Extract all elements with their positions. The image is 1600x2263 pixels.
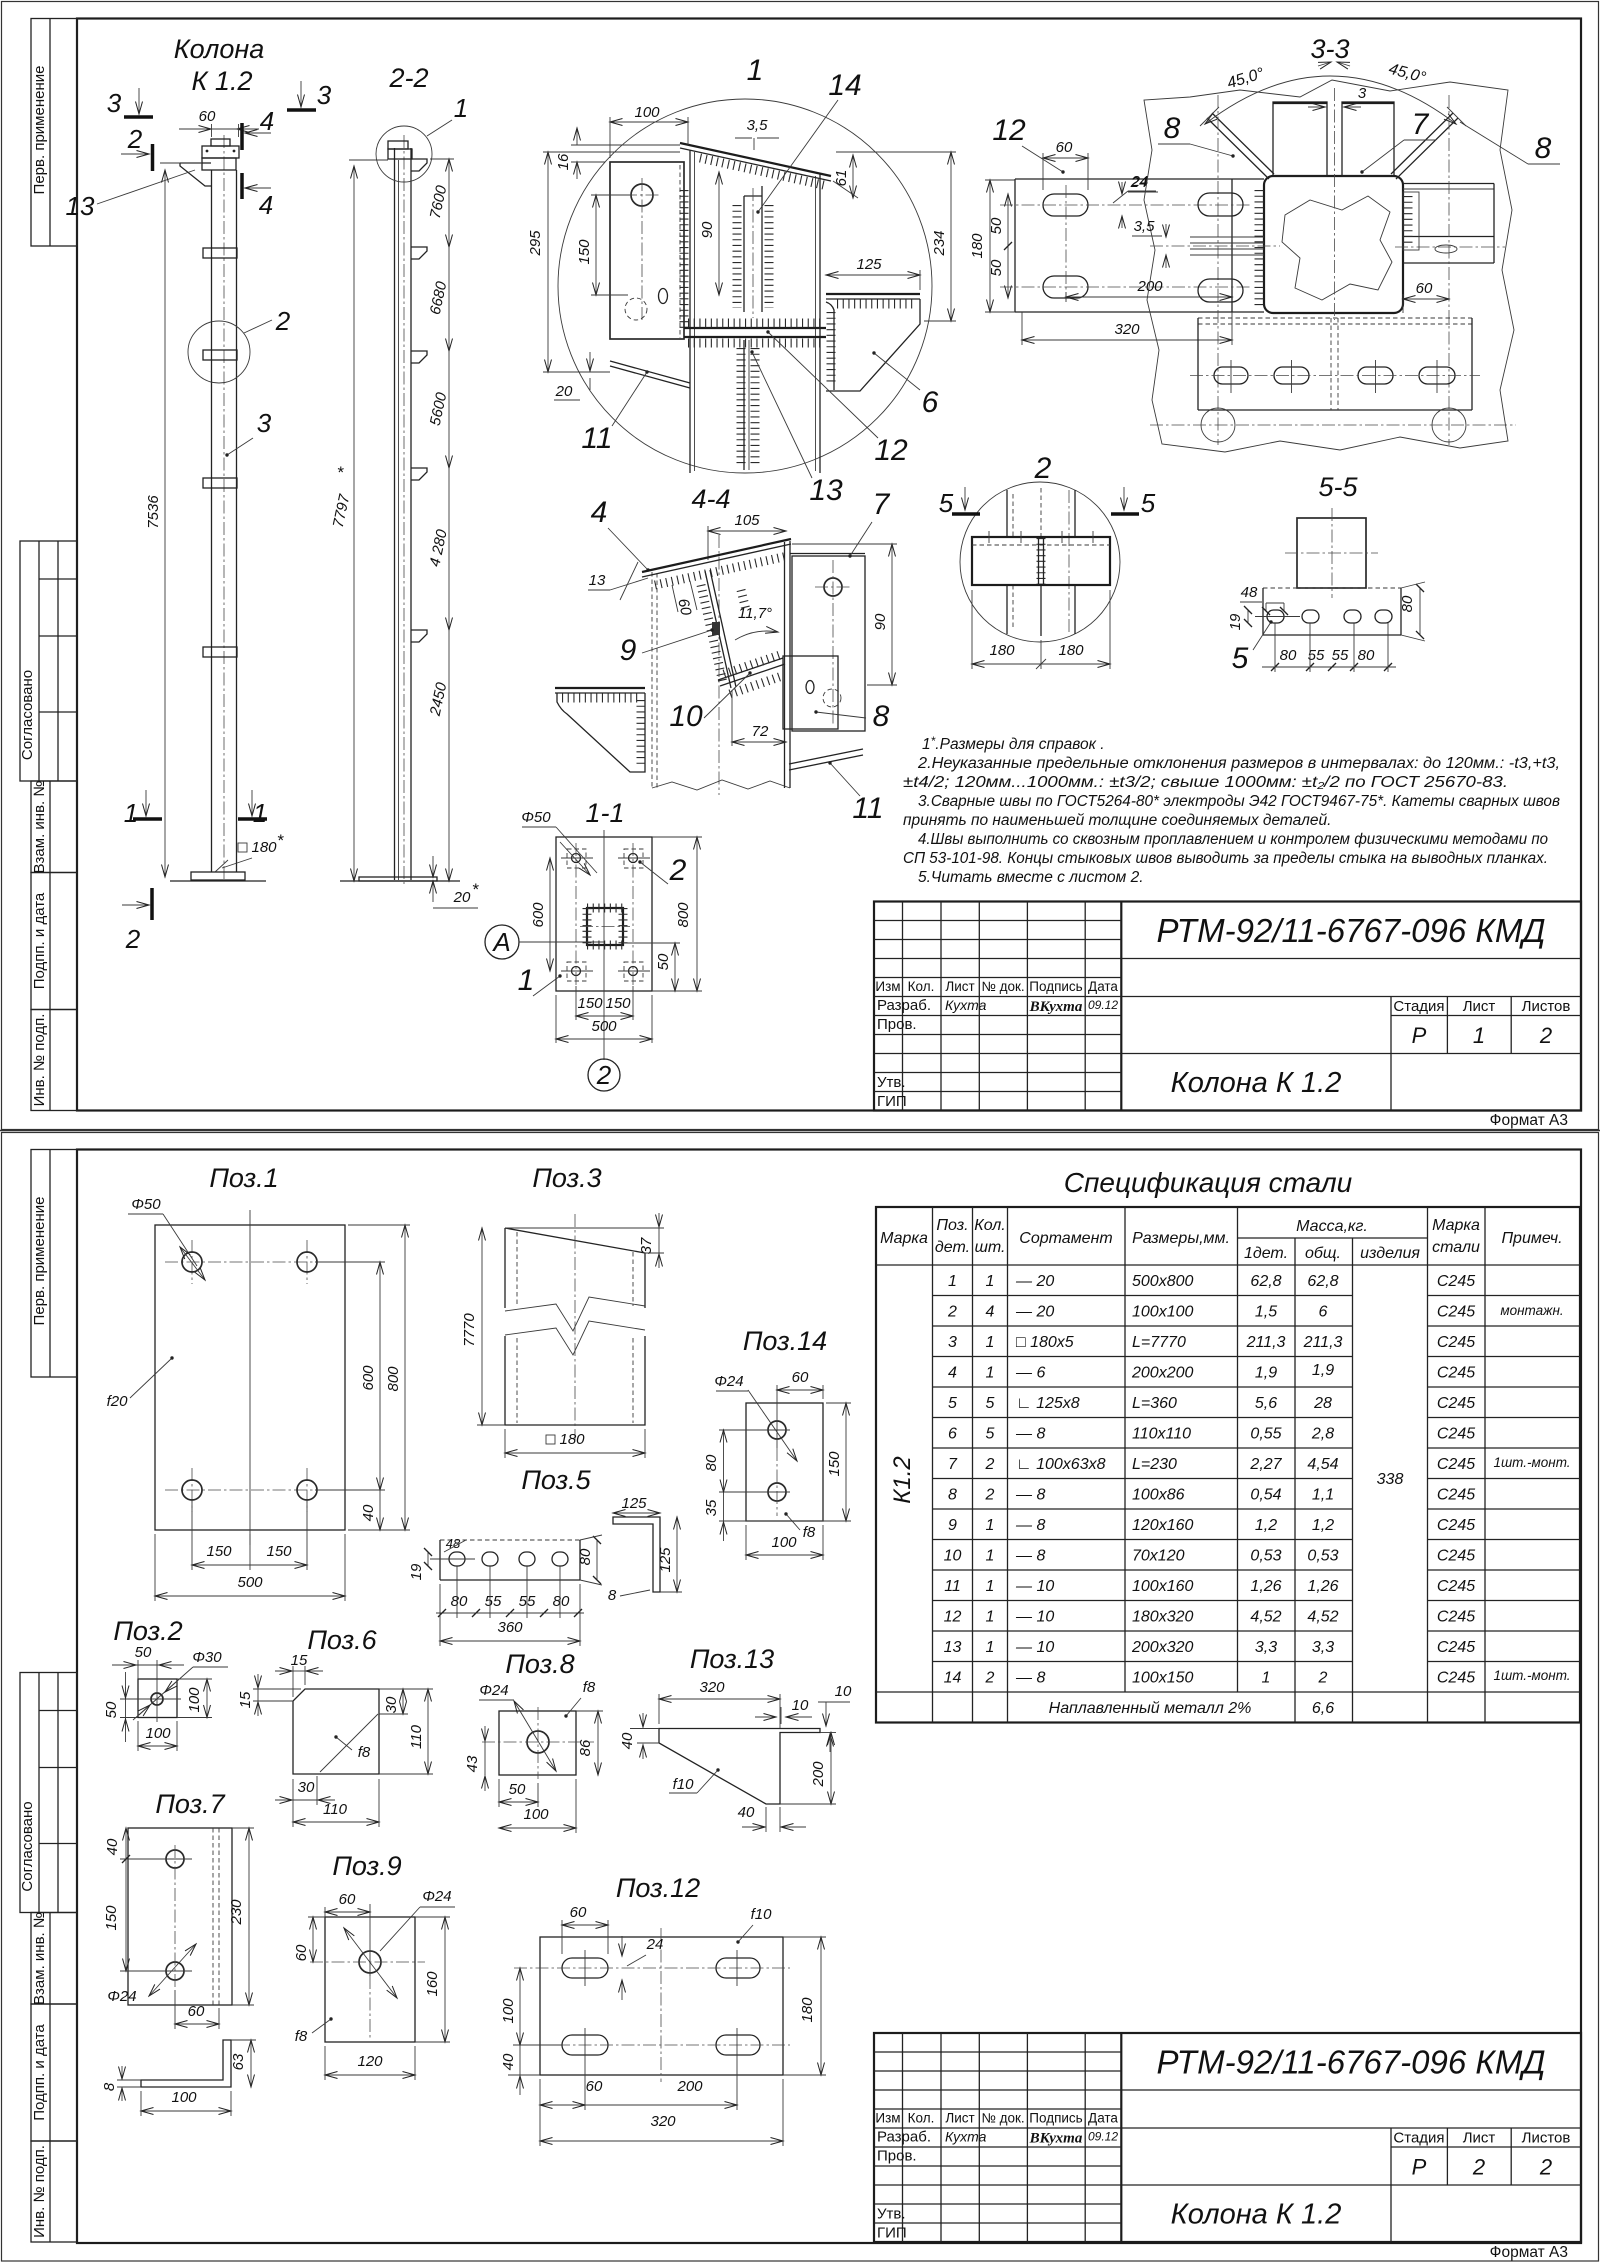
- dim 4280: [448, 468, 450, 630]
- svg-text:С245: С245: [1437, 1456, 1475, 1473]
- rung plate top: [203, 248, 237, 258]
- svg-text:500x800: 500x800: [1132, 1273, 1193, 1290]
- svg-text:230: 230: [228, 1899, 245, 1926]
- row lines: [933, 1295, 1353, 1297]
- svg-text:12: 12: [874, 434, 908, 467]
- rung plate 3: [203, 478, 237, 488]
- svg-text:1,1: 1,1: [1312, 1487, 1334, 1504]
- svg-text:принять по наименьшей толщине: принять по наименьшей толщине соединяемы…: [903, 812, 1331, 829]
- svg-text:180: 180: [251, 839, 277, 856]
- weld seam zipper: [1037, 538, 1046, 584]
- svg-text:L=230: L=230: [1132, 1456, 1177, 1473]
- svg-text:Подпись: Подпись: [1029, 2111, 1082, 2126]
- svg-text:200x200: 200x200: [1131, 1365, 1193, 1382]
- centerline right column: [1448, 95, 1450, 445]
- 45 brace right: [1396, 118, 1458, 179]
- pos.7 angle section: [141, 2040, 231, 2087]
- svg-text:Листов: Листов: [1522, 998, 1571, 1015]
- center line: [1334, 88, 1336, 320]
- svg-text:— 20: — 20: [1015, 1273, 1054, 1290]
- pos.13 plate: [659, 1729, 820, 1805]
- detail circle 2 marker: [188, 321, 250, 383]
- rung plate 2: [203, 350, 237, 360]
- svg-text:40: 40: [738, 1804, 755, 1821]
- centerlines: [1000, 204, 1250, 206]
- holes: [166, 1850, 184, 1868]
- svg-text:стали: стали: [1432, 1239, 1480, 1256]
- svg-text:1,2: 1,2: [1255, 1517, 1277, 1534]
- svg-text:Дата: Дата: [1088, 2111, 1118, 2126]
- svg-text:200: 200: [676, 2078, 703, 2095]
- svg-text:180: 180: [559, 1431, 585, 1448]
- svg-text:37: 37: [638, 1237, 655, 1254]
- svg-text:180: 180: [1058, 642, 1084, 659]
- torn sheet outline: [1144, 80, 1514, 452]
- svg-text:Лист: Лист: [1463, 2130, 1496, 2147]
- svg-text:60: 60: [293, 1944, 310, 1961]
- svg-text:Лист: Лист: [1463, 998, 1496, 1015]
- svg-text:5: 5: [986, 1426, 995, 1443]
- svg-text:8: 8: [1535, 132, 1552, 165]
- svg-text:40: 40: [104, 1838, 121, 1855]
- svg-text:РТМ-92/11-6767-096 КМД: РТМ-92/11-6767-096 КМД: [1156, 2044, 1545, 2081]
- f24 slash: [748, 1390, 797, 1461]
- svg-text:40: 40: [500, 2053, 517, 2070]
- holes: [768, 1421, 786, 1439]
- svg-text:2: 2: [1472, 2155, 1485, 2180]
- svg-text:дет.: дет.: [935, 1239, 970, 1256]
- svg-text:1дет.: 1дет.: [1244, 1245, 1288, 1262]
- svg-text:С245: С245: [1437, 1578, 1475, 1595]
- svg-text:200x320: 200x320: [1131, 1639, 1193, 1656]
- svg-text:10: 10: [835, 1683, 852, 1700]
- svg-text:Изм: Изм: [875, 2111, 900, 2126]
- lower gusset: [743, 340, 745, 470]
- svg-text:1,26: 1,26: [1250, 1578, 1281, 1595]
- svg-text:1: 1: [986, 1365, 995, 1382]
- svg-text:Инв. № подп.: Инв. № подп.: [31, 2145, 48, 2238]
- stamp box Согласовано s2: [20, 1673, 77, 1913]
- svg-text:55: 55: [1332, 647, 1349, 664]
- svg-text:14: 14: [944, 1670, 962, 1687]
- svg-text:Перв. применение: Перв. применение: [31, 66, 48, 195]
- svg-text:1: 1: [518, 964, 535, 997]
- svg-text:6,6: 6,6: [1312, 1700, 1334, 1717]
- svg-text:4: 4: [259, 190, 273, 220]
- svg-text:6: 6: [948, 1426, 957, 1443]
- svg-text:10: 10: [792, 1697, 809, 1714]
- table frame: [876, 1207, 1580, 1723]
- svg-text:Подпп. и дата: Подпп. и дата: [31, 2024, 48, 2121]
- f24 slash: [344, 1928, 397, 1998]
- svg-text:Кол.: Кол.: [908, 979, 935, 994]
- svg-text:60: 60: [199, 108, 216, 125]
- svg-text:40: 40: [360, 1504, 377, 1521]
- svg-text:1-1: 1-1: [585, 798, 624, 828]
- svg-text:Кухта: Кухта: [945, 997, 987, 1013]
- svg-text:3: 3: [317, 80, 332, 110]
- rung plate 4: [203, 647, 237, 657]
- svg-text:1,9: 1,9: [1312, 1362, 1334, 1379]
- tube weld tick left: [1255, 190, 1264, 306]
- svg-text:2: 2: [275, 306, 291, 336]
- svg-text:11: 11: [581, 422, 612, 455]
- weld ticks left wall: [680, 190, 689, 330]
- svg-text:09.12: 09.12: [1088, 2130, 1118, 2144]
- svg-text:Подпись: Подпись: [1029, 979, 1082, 994]
- svg-text:Формат А3: Формат А3: [1490, 2244, 1568, 2261]
- svg-text:500: 500: [237, 1574, 263, 1591]
- svg-text:3: 3: [1358, 85, 1367, 102]
- base plate plan: [556, 837, 652, 991]
- svg-text:48: 48: [1241, 584, 1258, 601]
- svg-text:100: 100: [186, 1687, 203, 1713]
- svg-text:60: 60: [586, 2078, 603, 2095]
- svg-text:— 10: — 10: [1015, 1639, 1054, 1656]
- svg-text:изделия: изделия: [1360, 1245, 1420, 1262]
- stiffener pos.9: [705, 571, 731, 688]
- angle pos.7 on tube right: [1403, 192, 1419, 250]
- svg-text:70x120: 70x120: [1132, 1548, 1185, 1565]
- svg-text:150: 150: [266, 1543, 292, 1560]
- svg-text:1*.Размеры для справок .: 1*.Размеры для справок .: [922, 734, 1105, 753]
- svg-text:125: 125: [657, 1547, 674, 1573]
- svg-text:3,3: 3,3: [1312, 1639, 1334, 1656]
- svg-text:4: 4: [591, 496, 608, 529]
- pos.5 bar: [440, 1539, 580, 1541]
- stamp box Подпп. и дата s2: [31, 2004, 77, 2141]
- svg-text:3: 3: [257, 408, 272, 438]
- svg-text:2: 2: [125, 924, 141, 954]
- svg-text:14: 14: [828, 69, 861, 102]
- svg-text:№ док.: № док.: [981, 979, 1024, 994]
- base bar: [1263, 587, 1401, 589]
- svg-text:Φ24: Φ24: [479, 1682, 508, 1699]
- plate pos.8: [783, 656, 838, 729]
- svg-text:100x160: 100x160: [1132, 1578, 1193, 1595]
- svg-text:19: 19: [408, 1563, 425, 1580]
- svg-text:5: 5: [939, 488, 954, 518]
- svg-text:Марка: Марка: [1432, 1217, 1480, 1234]
- strut pos.11 lower: [789, 749, 863, 764]
- svg-text:К 1.2: К 1.2: [192, 66, 253, 96]
- svg-text:Колона К 1.2: Колона К 1.2: [1171, 2199, 1342, 2231]
- svg-text:100: 100: [523, 1806, 549, 1823]
- svg-text:80: 80: [703, 1454, 720, 1471]
- svg-text:— 6: — 6: [1015, 1365, 1045, 1382]
- pos.1 plate: [155, 1225, 345, 1530]
- circle 2 below: [588, 1059, 620, 1091]
- svg-text:Изм: Изм: [875, 979, 900, 994]
- svg-text:1: 1: [986, 1578, 995, 1595]
- hidden column edge behind plate: [679, 165, 681, 338]
- svg-text:Перв. применение: Перв. применение: [31, 1197, 48, 1326]
- svg-text:11: 11: [852, 792, 883, 825]
- strut pos.11: [610, 361, 690, 383]
- svg-text:60: 60: [188, 2003, 205, 2020]
- svg-text:12: 12: [992, 114, 1026, 147]
- slot row2 left: [1043, 276, 1088, 298]
- break zigzag: [505, 1297, 645, 1331]
- svg-text:3.Сварные швы по ГОСТ5264-80*: 3.Сварные швы по ГОСТ5264-80* электроды …: [918, 793, 1560, 810]
- svg-text:500: 500: [591, 1018, 617, 1035]
- svg-text:150: 150: [206, 1543, 232, 1560]
- svg-text:f8: f8: [295, 2028, 308, 2045]
- bottom plate: [1198, 317, 1472, 319]
- pos.2 plate: [138, 1679, 177, 1718]
- svg-text:8: 8: [948, 1487, 957, 1504]
- detail circle 1 marker: [376, 126, 432, 182]
- svg-text:Утв.: Утв.: [877, 2206, 906, 2223]
- dim 180: [546, 1435, 555, 1444]
- svg-text:А: А: [491, 927, 510, 957]
- svg-text:90: 90: [699, 221, 716, 238]
- svg-text:19: 19: [1227, 613, 1244, 630]
- dim 7797: [353, 166, 355, 881]
- svg-text:43: 43: [464, 1755, 481, 1772]
- pos.6 plate: [293, 1689, 379, 1774]
- svg-text:Φ24: Φ24: [422, 1888, 451, 1905]
- svg-text:180: 180: [989, 642, 1015, 659]
- svg-text:6: 6: [1319, 1304, 1328, 1321]
- svg-text:С245: С245: [1437, 1609, 1475, 1626]
- svg-text:Пров.: Пров.: [877, 2148, 917, 2165]
- dim chain right: 7600: [448, 159, 450, 247]
- svg-text:Взам. инв. №: Взам. инв. №: [31, 1912, 48, 2005]
- plate pos.13 face: [610, 162, 684, 339]
- svg-text:2: 2: [596, 1060, 612, 1090]
- splice weld ticks top: [688, 319, 824, 328]
- bracket flag 5: [411, 630, 427, 642]
- svg-text:10: 10: [944, 1548, 962, 1565]
- svg-text:Поз.: Поз.: [936, 1217, 968, 1234]
- centerline left column: [1217, 95, 1219, 445]
- svg-text:12: 12: [944, 1609, 962, 1626]
- slot oval: [659, 289, 668, 304]
- svg-text:3,5: 3,5: [747, 117, 769, 134]
- pos.8 plate: [499, 1711, 576, 1775]
- svg-text:50: 50: [509, 1781, 526, 1798]
- svg-text:4,52: 4,52: [1250, 1609, 1281, 1626]
- pos.12 plate: [540, 1937, 783, 2075]
- svg-text:50: 50: [988, 259, 1005, 276]
- svg-text:СП 53-101-98. Концы стыковых ш: СП 53-101-98. Концы стыковых швов выводи…: [903, 850, 1548, 867]
- svg-text:Кухта: Кухта: [945, 2129, 987, 2145]
- svg-text:Р: Р: [1412, 2155, 1427, 2180]
- svg-text:1: 1: [986, 1548, 995, 1565]
- svg-text:Согласовано: Согласовано: [19, 1801, 36, 1891]
- svg-text:С245: С245: [1437, 1273, 1475, 1290]
- svg-text:200: 200: [810, 1761, 827, 1788]
- svg-text:320: 320: [699, 1679, 725, 1696]
- svg-text:60: 60: [792, 1369, 809, 1386]
- svg-text:11: 11: [944, 1578, 961, 1595]
- svg-text:Р: Р: [1412, 1023, 1427, 1048]
- stamp box Согласовано: [20, 541, 77, 781]
- svg-text:5: 5: [986, 1395, 995, 1412]
- pos.5 angle profile: [613, 1517, 660, 1592]
- svg-text:2: 2: [669, 854, 687, 887]
- svg-text:40: 40: [619, 1732, 636, 1749]
- svg-text:100x150: 100x150: [1132, 1670, 1193, 1687]
- svg-text:5-5: 5-5: [1318, 472, 1358, 502]
- 2-2 base plate: [359, 877, 437, 881]
- svg-text:1: 1: [124, 798, 138, 828]
- svg-text:4,52: 4,52: [1307, 1609, 1338, 1626]
- pos.3 tube lower part: [505, 1336, 645, 1425]
- column edges: [1006, 490, 1008, 537]
- annotation 180*: [238, 843, 247, 852]
- fin plate pos.13: [180, 163, 211, 186]
- svg-text:8: 8: [101, 2082, 118, 2091]
- f30 slash: [133, 1667, 193, 1720]
- svg-text:320: 320: [1114, 321, 1140, 338]
- svg-text:С245: С245: [1437, 1487, 1475, 1504]
- svg-text:80: 80: [577, 1548, 594, 1565]
- svg-text:Подпп. и дата: Подпп. и дата: [31, 892, 48, 989]
- hole f30: [151, 1693, 163, 1705]
- center seam: [1040, 488, 1042, 537]
- weld rect: [712, 622, 720, 635]
- column torn bottom: [652, 780, 790, 790]
- plate pos.7 right: [792, 556, 865, 731]
- svg-text:1,2: 1,2: [1312, 1517, 1334, 1534]
- sheet separator line: [0, 1130, 1600, 1132]
- tick marks on band: [988, 531, 990, 543]
- svg-text:7536: 7536: [145, 495, 162, 529]
- svg-text:800: 800: [385, 1366, 402, 1392]
- svg-text:1: 1: [986, 1609, 995, 1626]
- svg-text:110: 110: [408, 1724, 425, 1749]
- svg-text:Разраб.: Разраб.: [877, 2129, 931, 2146]
- svg-text:f20: f20: [107, 1393, 129, 1410]
- svg-text:600: 600: [360, 1365, 377, 1391]
- 45 brace left: [1207, 118, 1269, 179]
- pos.14 plate: [746, 1403, 823, 1521]
- svg-text:Инв. № подп.: Инв. № подп.: [31, 1014, 48, 1107]
- column right edge: [784, 542, 786, 788]
- svg-text:общ.: общ.: [1305, 1245, 1341, 1262]
- svg-text:ВКухта: ВКухта: [1029, 999, 1083, 1015]
- angle pos.5 corner: [826, 302, 834, 390]
- anchor circles: [1201, 408, 1235, 442]
- svg-text:С245: С245: [1437, 1365, 1475, 1382]
- svg-text:монтажн.: монтажн.: [1500, 1303, 1563, 1318]
- svg-text:ВКухта: ВКухта: [1029, 2131, 1083, 2147]
- svg-text:L=7770: L=7770: [1132, 1334, 1186, 1351]
- svg-text:С245: С245: [1437, 1334, 1475, 1351]
- f24 slash: [514, 1701, 556, 1771]
- svg-text:РТМ-92/11-6767-096 КМД: РТМ-92/11-6767-096 КМД: [1156, 912, 1545, 949]
- plate pos.12 face: [1015, 179, 1264, 312]
- svg-text:Дата: Дата: [1088, 979, 1118, 994]
- svg-text:1: 1: [986, 1517, 995, 1534]
- svg-text:11,7°: 11,7°: [738, 605, 772, 622]
- svg-text:8: 8: [873, 700, 890, 733]
- svg-text:Поз.3: Поз.3: [532, 1163, 601, 1193]
- title block sheet 1: [874, 902, 1581, 1111]
- dim 2450: [448, 630, 450, 881]
- svg-text:2: 2: [985, 1456, 995, 1473]
- svg-text:С245: С245: [1437, 1395, 1475, 1412]
- svg-text:Стадия: Стадия: [1393, 2130, 1444, 2147]
- svg-text:3,3: 3,3: [1255, 1639, 1277, 1656]
- dim 7536: [164, 170, 166, 877]
- diagonal: [320, 1714, 378, 1772]
- svg-text:Масса,кг.: Масса,кг.: [1296, 1218, 1368, 1235]
- svg-text:295: 295: [527, 230, 544, 257]
- svg-text:55: 55: [485, 1593, 502, 1610]
- svg-text:∟ 100x63x8: ∟ 100x63x8: [1016, 1456, 1106, 1473]
- svg-text:0,53: 0,53: [1307, 1548, 1338, 1565]
- svg-text:10: 10: [669, 700, 703, 733]
- svg-text:Лист: Лист: [945, 979, 974, 994]
- stamp box Подпп. и дата: [31, 873, 77, 1010]
- svg-text:Поз.13: Поз.13: [690, 1644, 774, 1674]
- svg-text:f10: f10: [751, 1906, 773, 1923]
- square tube: [1297, 518, 1366, 588]
- svg-text:160: 160: [424, 1971, 441, 1997]
- svg-text:60: 60: [339, 1891, 356, 1908]
- svg-text:1: 1: [253, 798, 267, 828]
- svg-text:Колона: Колона: [174, 34, 264, 64]
- gusset weld ticks: [733, 205, 742, 308]
- svg-text:211,3: 211,3: [1303, 1334, 1343, 1351]
- svg-text:2,27: 2,27: [1249, 1456, 1282, 1473]
- svg-text:1: 1: [986, 1273, 995, 1290]
- svg-text:Кол.: Кол.: [974, 1217, 1005, 1234]
- svg-text:180: 180: [799, 1997, 816, 2023]
- svg-text:Поз.1: Поз.1: [209, 1163, 278, 1193]
- svg-text:80: 80: [553, 1593, 570, 1610]
- slots: [449, 1552, 465, 1566]
- svg-text:С245: С245: [1437, 1517, 1475, 1534]
- pos.7 plate: [128, 1828, 232, 2005]
- svg-text:Поз.5: Поз.5: [521, 1465, 591, 1495]
- top slanted plate pos.14: [680, 143, 831, 176]
- svg-text:Листов: Листов: [1522, 2130, 1571, 2147]
- svg-text:Лист: Лист: [945, 2111, 974, 2126]
- svg-text:3,5: 3,5: [1134, 218, 1156, 235]
- svg-text:50: 50: [103, 1701, 120, 1718]
- svg-text:100: 100: [634, 104, 660, 121]
- svg-text:600: 600: [530, 902, 547, 928]
- svg-text:180: 180: [969, 233, 986, 259]
- svg-text:62,8: 62,8: [1307, 1273, 1338, 1290]
- svg-text:7: 7: [873, 488, 891, 521]
- svg-text:13: 13: [809, 474, 843, 507]
- svg-text:100x86: 100x86: [1132, 1487, 1185, 1504]
- svg-text:24: 24: [646, 1936, 664, 1953]
- svg-text:Стадия: Стадия: [1393, 998, 1444, 1015]
- stamp box Перв. применение s2: [31, 1150, 77, 1378]
- svg-text:Пров.: Пров.: [877, 1016, 917, 1033]
- svg-text:150: 150: [605, 995, 631, 1012]
- svg-text:60: 60: [1416, 280, 1433, 297]
- svg-text:62,8: 62,8: [1250, 1273, 1281, 1290]
- svg-text:120x160: 120x160: [1132, 1517, 1193, 1534]
- svg-text:24: 24: [1130, 174, 1148, 191]
- svg-text:105: 105: [734, 512, 760, 529]
- column shaft left view: [211, 170, 213, 872]
- 2-2 cap: [388, 141, 408, 149]
- svg-text:50: 50: [655, 953, 672, 970]
- svg-text:Кол.: Кол.: [908, 2111, 935, 2126]
- svg-text:4.Швы выполнить со сквозным пр: 4.Швы выполнить со сквозным проплавление…: [918, 831, 1548, 848]
- svg-text:8: 8: [1164, 112, 1181, 145]
- sheet 2 inner frame: [77, 1150, 1581, 2244]
- svg-text:0,54: 0,54: [1250, 1487, 1281, 1504]
